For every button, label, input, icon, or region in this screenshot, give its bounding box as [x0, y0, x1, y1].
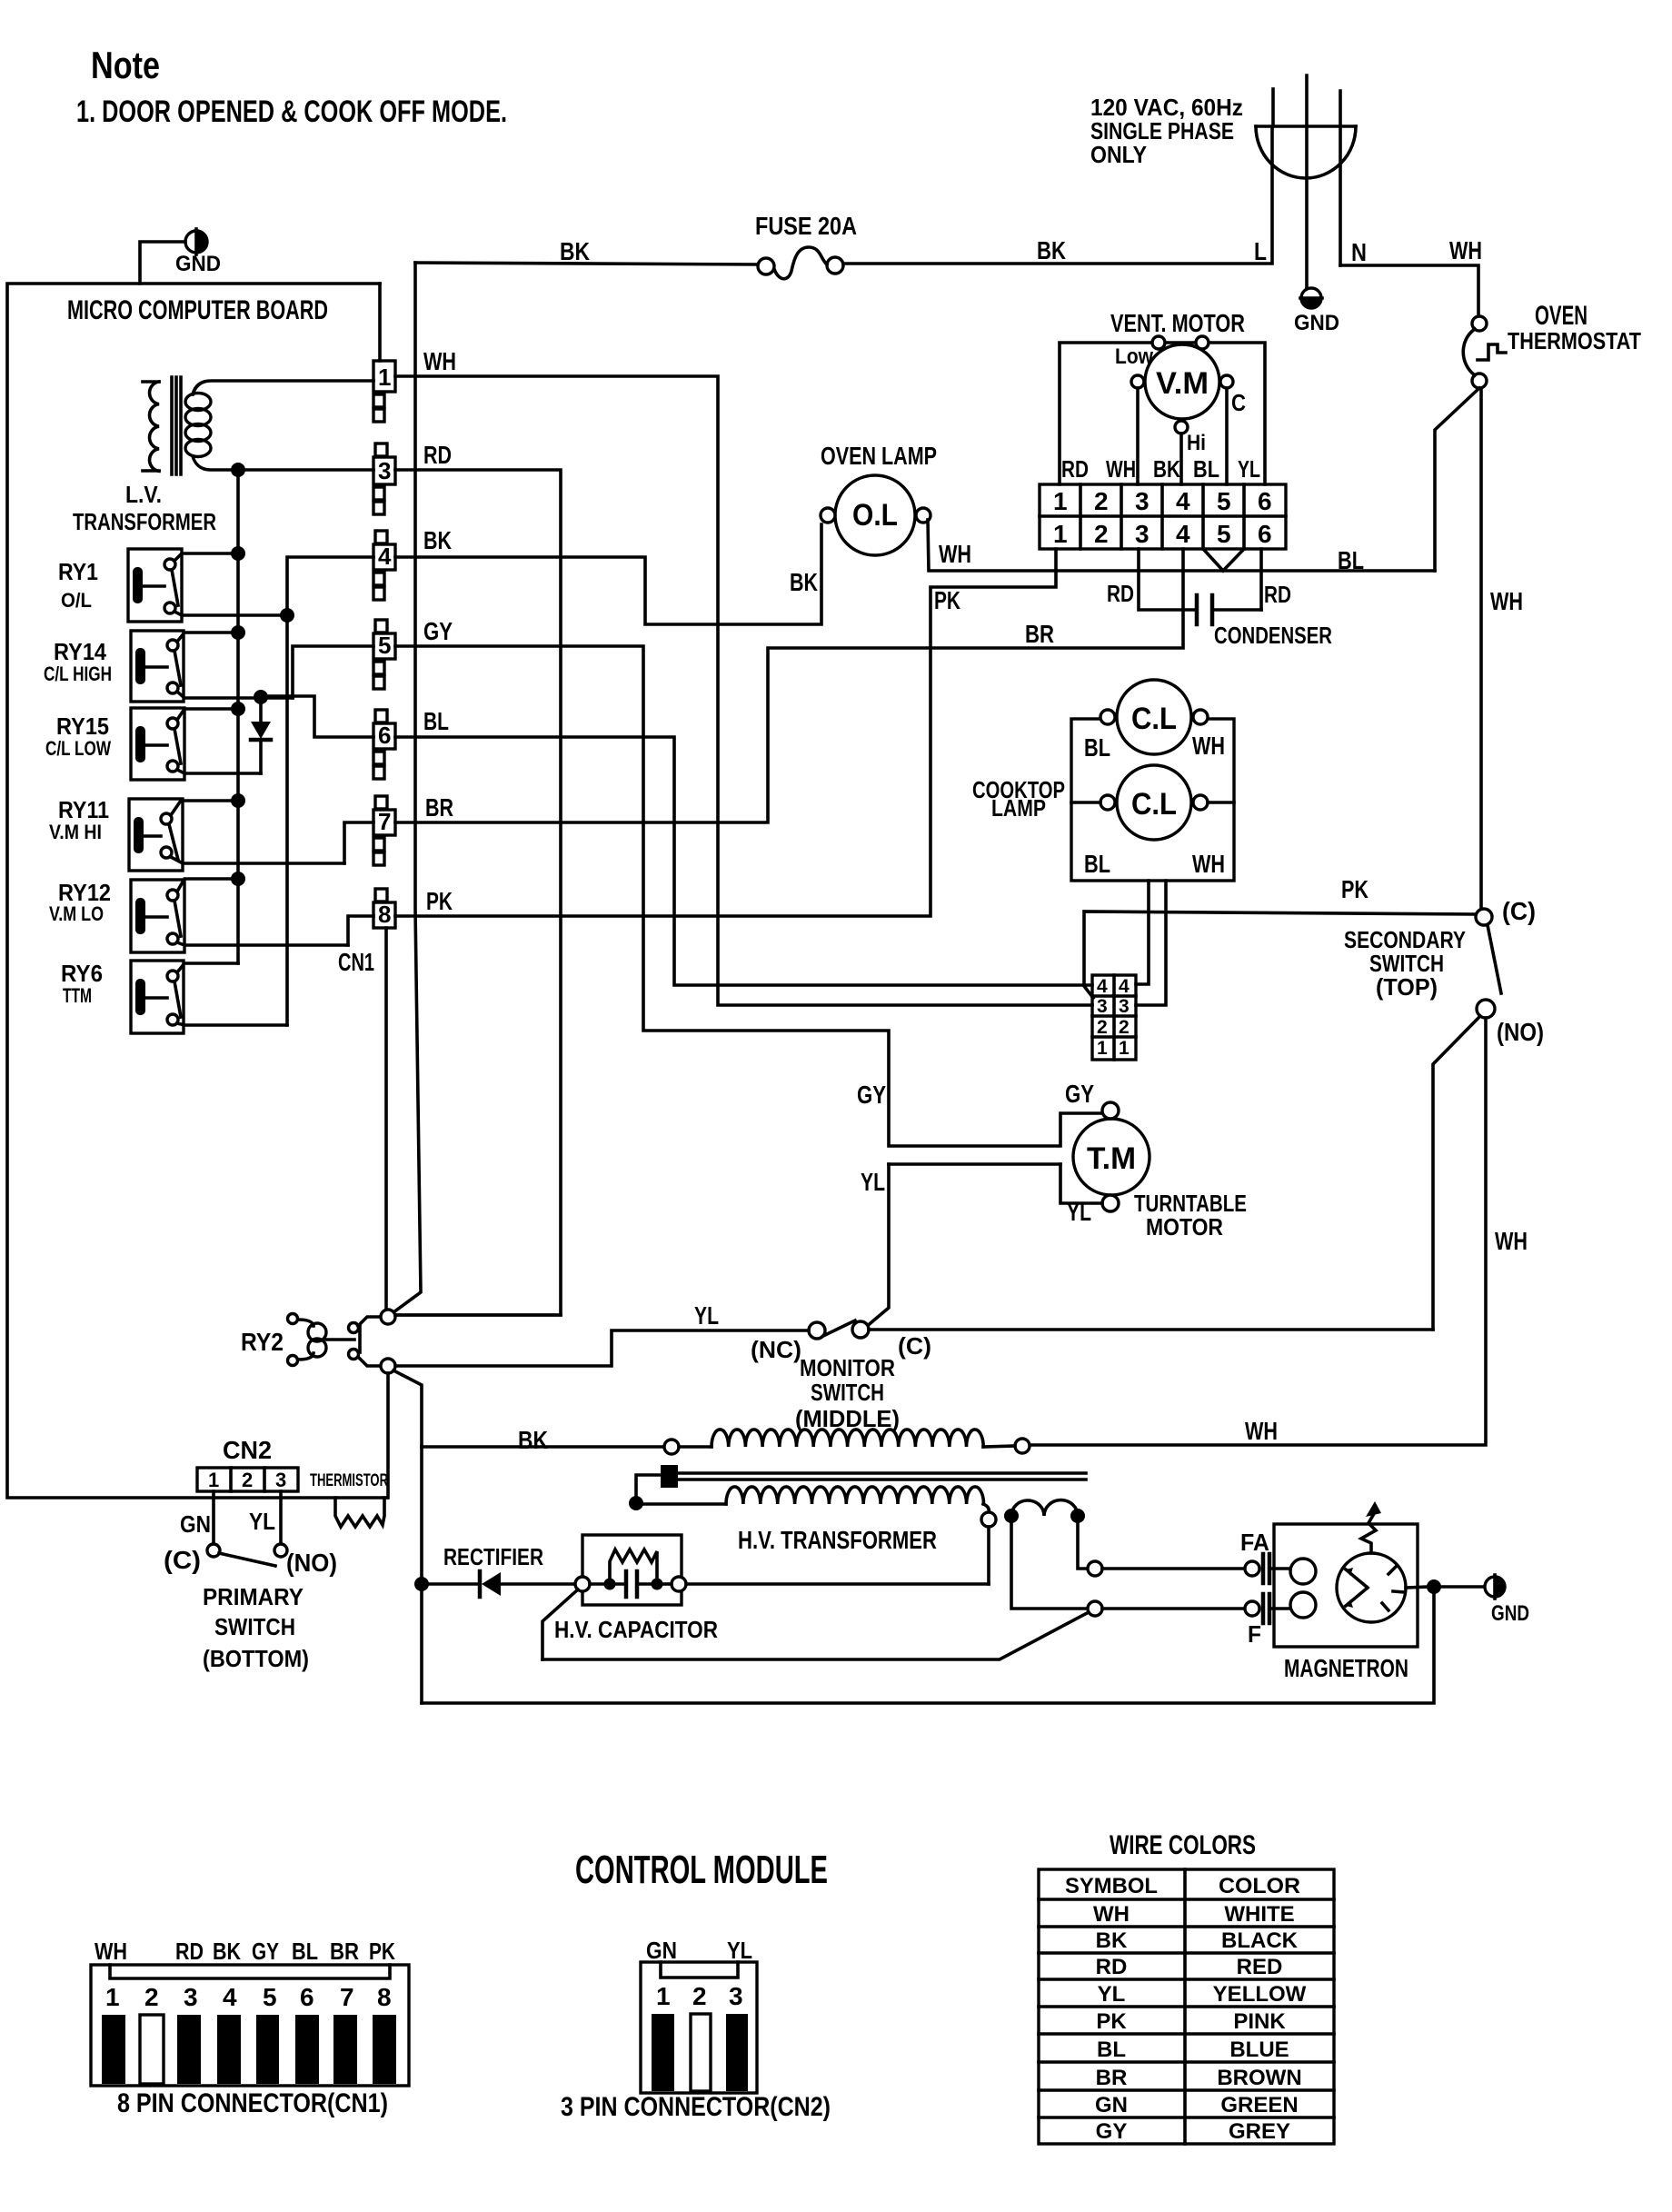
- svg-text:RY6: RY6: [61, 960, 103, 987]
- wire capacitor line to magnetron F: [542, 1612, 1089, 1659]
- wire RD net from pin 3: [393, 470, 561, 1315]
- svg-text:8: 8: [378, 901, 391, 928]
- svg-text:(BOTTOM): (BOTTOM): [203, 1645, 309, 1672]
- svg-text:RY1: RY1: [58, 558, 98, 585]
- svg-text:PK: PK: [426, 887, 453, 915]
- wire filament right to FA terminal: [1078, 1520, 1087, 1569]
- relay RY1 O/L: [128, 549, 287, 622]
- svg-text:LAMP: LAMP: [991, 794, 1046, 822]
- svg-text:2: 2: [1094, 520, 1109, 548]
- svg-text:BL: BL: [1084, 850, 1110, 878]
- CN2 pin numbers: [208, 1469, 286, 1491]
- connector CN1 strip: [373, 361, 395, 928]
- svg-text:CN1: CN1: [338, 948, 374, 976]
- svg-text:ONLY: ONLY: [1090, 141, 1147, 168]
- svg-text:THERMISTOR: THERMISTOR: [310, 1471, 388, 1490]
- svg-text:WH: WH: [1245, 1417, 1278, 1445]
- svg-text:RD: RD: [1264, 581, 1291, 608]
- wire pin8 step to RY12: [348, 916, 373, 945]
- 3 pin connector pin numbers: [656, 1982, 743, 2010]
- CN1 pin numbers: [378, 364, 392, 928]
- svg-text:GY: GY: [857, 1081, 886, 1109]
- svg-text:3: 3: [275, 1469, 286, 1491]
- svg-text:RY14: RY14: [54, 638, 106, 665]
- condenser capacitor: [1197, 595, 1261, 624]
- svg-text:YL: YL: [1067, 1198, 1091, 1226]
- svg-text:7: 7: [378, 808, 391, 835]
- wire BK net from pin 4 to oven lamp: [395, 524, 821, 624]
- diode D1: [251, 697, 271, 773]
- svg-text:(NO): (NO): [1497, 1018, 1544, 1046]
- wire pin6 step to diode: [261, 696, 373, 737]
- cooktop lamp C.L upper: [1100, 680, 1208, 754]
- svg-text:1: 1: [656, 1982, 671, 2010]
- svg-text:BK: BK: [423, 526, 452, 554]
- FA line terminal: [1088, 1561, 1102, 1576]
- svg-text:BR: BR: [1096, 2066, 1128, 2090]
- wire BR net from pin 7 to vent motor block: [395, 549, 1183, 822]
- svg-text:1: 1: [208, 1469, 219, 1491]
- svg-text:O/L: O/L: [61, 589, 92, 612]
- svg-text:BROWN: BROWN: [1217, 2066, 1301, 2090]
- svg-text:2: 2: [1094, 487, 1109, 515]
- svg-text:WH: WH: [1192, 850, 1225, 878]
- HV transformer core: [636, 1465, 1086, 1503]
- wire pin7 step to RY11: [344, 822, 373, 863]
- svg-text:6: 6: [1258, 520, 1272, 548]
- svg-text:Low: Low: [1115, 344, 1153, 369]
- junction dot transformer to bus: [231, 463, 245, 477]
- svg-text:GY: GY: [252, 1938, 279, 1965]
- svg-text:RD: RD: [1107, 580, 1134, 607]
- svg-text:RD: RD: [1096, 1955, 1128, 1979]
- svg-text:H.V. CAPACITOR: H.V. CAPACITOR: [554, 1616, 718, 1643]
- svg-text:WH: WH: [1449, 236, 1482, 264]
- wire PK net from pin 8 to vent motor block: [395, 549, 1056, 916]
- svg-text:H.V. TRANSFORMER: H.V. TRANSFORMER: [738, 1526, 937, 1554]
- wire N to oven thermostat: [1340, 265, 1478, 316]
- monitor switch C contact: [852, 1321, 869, 1338]
- svg-text:(NO): (NO): [286, 1549, 337, 1577]
- svg-text:V.M HI: V.M HI: [49, 821, 102, 843]
- wire WH oven lamp to thermostat line: [928, 520, 1435, 571]
- ground symbol GND (magnetron): [1485, 1575, 1505, 1599]
- svg-text:RD: RD: [1061, 455, 1089, 483]
- svg-text:1: 1: [378, 364, 391, 391]
- wire magnetron ground to chassis bottom: [422, 1592, 1434, 1703]
- svg-text:L.V.: L.V.: [125, 481, 162, 508]
- svg-text:WHITE: WHITE: [1224, 1902, 1294, 1927]
- junction dot HV secondary left: [629, 1496, 643, 1510]
- svg-text:RY15: RY15: [56, 712, 109, 740]
- svg-text:V.M: V.M: [1156, 366, 1209, 401]
- svg-text:1: 1: [105, 1983, 120, 2011]
- svg-text:YL: YL: [249, 1508, 275, 1535]
- svg-text:4: 4: [1176, 520, 1190, 548]
- secondary switch C contact: [1476, 909, 1492, 925]
- thermistor: [310, 1471, 388, 1527]
- svg-text:BL: BL: [423, 707, 449, 735]
- RY2 terminal bottom: [381, 1359, 395, 1373]
- wire WH from NO to HV transformer: [1030, 1018, 1486, 1445]
- 8 pin connector pin bars: [102, 2015, 396, 2084]
- svg-text:RED: RED: [1237, 1955, 1283, 1979]
- primary switch: [207, 1491, 287, 1566]
- svg-text:BL: BL: [292, 1938, 318, 1965]
- svg-text:C/L LOW: C/L LOW: [45, 737, 111, 760]
- terminal block pin numbers row 1: [1053, 487, 1272, 515]
- wire PK secondary switch line: [1084, 912, 1476, 998]
- junction dot filament right: [1070, 1509, 1085, 1523]
- wire BK mains from fuse corner down to RY2: [393, 263, 421, 1312]
- svg-text:BK: BK: [1037, 236, 1066, 264]
- svg-text:3 PIN CONNECTOR(CN2): 3 PIN CONNECTOR(CN2): [561, 2092, 831, 2122]
- svg-text:YL: YL: [1098, 1982, 1126, 2007]
- svg-text:BK: BK: [1096, 1928, 1128, 1953]
- secondary switch blade: [1488, 925, 1501, 993]
- svg-text:BLACK: BLACK: [1221, 1928, 1299, 1953]
- F line terminal: [1088, 1601, 1102, 1616]
- svg-text:WH: WH: [1192, 732, 1225, 760]
- svg-text:PINK: PINK: [1233, 2009, 1286, 2034]
- svg-text:THERMOSTAT: THERMOSTAT: [1508, 327, 1641, 354]
- svg-text:GN: GN: [646, 1937, 677, 1964]
- svg-text:BL: BL: [1338, 546, 1364, 574]
- svg-text:CONDENSER: CONDENSER: [1214, 622, 1332, 649]
- secondary interlock connector 4321: [1092, 975, 1136, 1060]
- svg-text:WH: WH: [423, 347, 456, 375]
- svg-text:7: 7: [340, 1983, 354, 2011]
- svg-text:N: N: [1351, 238, 1367, 266]
- oven thermostat: [1463, 316, 1506, 388]
- svg-text:4: 4: [1119, 976, 1130, 997]
- svg-text:(MIDDLE): (MIDDLE): [795, 1405, 900, 1432]
- L.V. transformer: [143, 377, 373, 474]
- fuse 20A: [758, 247, 843, 279]
- ground symbol GND (board): [140, 229, 207, 284]
- svg-text:T.M: T.M: [1087, 1141, 1136, 1176]
- svg-text:PK: PK: [1096, 2009, 1127, 2034]
- svg-text:VENT. MOTOR: VENT. MOTOR: [1110, 309, 1245, 337]
- svg-text:3: 3: [1119, 996, 1130, 1017]
- wire WH thermostat down to secondary switch C: [1479, 388, 1483, 908]
- svg-text:4: 4: [1176, 487, 1190, 515]
- svg-text:4: 4: [223, 1983, 237, 2011]
- rectifier branch vertical: [420, 1447, 423, 1703]
- svg-text:GN: GN: [180, 1510, 211, 1538]
- svg-text:BLUE: BLUE: [1229, 2038, 1289, 2062]
- wire to magnetron FA: [1102, 1567, 1244, 1570]
- wire pin4 step to RY1 and RY6: [287, 557, 373, 1025]
- svg-text:3: 3: [729, 1982, 743, 2010]
- wire BL net from pin 6 to interlock connector: [395, 737, 1092, 985]
- svg-text:1: 1: [1119, 1038, 1130, 1059]
- svg-text:2: 2: [1097, 1017, 1108, 1038]
- wire BK to HV transformer primary: [422, 1445, 663, 1449]
- svg-text:SWITCH: SWITCH: [811, 1379, 884, 1406]
- svg-text:CN2: CN2: [223, 1436, 272, 1464]
- vent motor V.M: [1060, 336, 1265, 484]
- 3 pin connector pin bars: [652, 2014, 748, 2091]
- svg-text:BK: BK: [560, 237, 590, 265]
- svg-text:2: 2: [242, 1469, 253, 1491]
- junction dot magnetron ground: [1427, 1579, 1441, 1594]
- turntable motor T.M: [1060, 1102, 1149, 1211]
- svg-text:GY: GY: [423, 617, 453, 645]
- svg-text:4: 4: [378, 543, 392, 570]
- wire capacitor to HV secondary: [686, 1582, 989, 1586]
- svg-text:RY2: RY2: [241, 1328, 284, 1356]
- svg-text:FUSE 20A: FUSE 20A: [755, 212, 857, 240]
- svg-text:MICRO COMPUTER BOARD: MICRO COMPUTER BOARD: [67, 295, 328, 325]
- 8 pin connector pin numbers: [105, 1983, 392, 2011]
- svg-text:PK: PK: [1341, 875, 1368, 903]
- svg-text:BK: BK: [518, 1426, 548, 1454]
- svg-text:GND: GND: [1294, 311, 1339, 335]
- svg-text:WH: WH: [1106, 455, 1136, 483]
- svg-text:8 PIN CONNECTOR(CN1): 8 PIN CONNECTOR(CN1): [117, 2088, 388, 2118]
- svg-text:1: 1: [1053, 487, 1068, 515]
- wire NO to monitor switch line: [1433, 1016, 1480, 1330]
- svg-text:GREEN: GREEN: [1220, 2093, 1298, 2117]
- svg-text:F: F: [1248, 1620, 1261, 1648]
- wire magnetron to GND: [1439, 1585, 1484, 1589]
- svg-text:6: 6: [378, 722, 391, 749]
- wire RD condenser right: [1259, 549, 1263, 610]
- HV transformer secondary winding: [636, 1487, 996, 1584]
- HV transformer filament winding: [1011, 1500, 1078, 1516]
- svg-text:BL: BL: [1097, 2038, 1126, 2062]
- relay RY14 C/L HIGH: [131, 631, 293, 702]
- wire thermostat to BL line: [1435, 388, 1479, 571]
- svg-text:MOTOR: MOTOR: [1146, 1213, 1223, 1241]
- wire pin5 step to RY14: [293, 646, 373, 698]
- wire monitor C to secondary NO: [869, 1328, 1433, 1331]
- svg-text:BK: BK: [790, 568, 818, 596]
- svg-text:O.L: O.L: [852, 498, 898, 533]
- svg-text:RY11: RY11: [58, 796, 109, 823]
- connector CN2: [197, 1468, 298, 1491]
- svg-text:FA: FA: [1240, 1529, 1269, 1556]
- 8 pin connector CN1 diagram: [91, 1965, 409, 2086]
- svg-text:(NC): (NC): [751, 1336, 801, 1363]
- wire BK fuse to plug L: [843, 127, 1272, 264]
- wire RY2 bottom to BK HV line: [393, 1370, 422, 1447]
- wire stub block cell5 to lamp line: [1203, 549, 1244, 571]
- cooktop lamp C.L lower: [1071, 765, 1234, 840]
- svg-text:YL: YL: [1238, 455, 1260, 483]
- wire CN1 stem below RY2 to board edge: [386, 1373, 390, 1498]
- svg-text:2: 2: [1119, 1017, 1130, 1038]
- svg-text:1: 1: [1053, 520, 1068, 548]
- svg-text:WIRE COLORS: WIRE COLORS: [1110, 1830, 1256, 1860]
- svg-text:RD: RD: [423, 441, 452, 469]
- oven lamp O.L: [821, 475, 931, 555]
- relay RY15 C/L LOW: [131, 708, 261, 780]
- svg-text:1. DOOR OPENED & COOK OFF MODE: 1. DOOR OPENED & COOK OFF MODE.: [76, 95, 507, 129]
- svg-text:C/L HIGH: C/L HIGH: [44, 663, 112, 685]
- svg-text:GND: GND: [1491, 1601, 1529, 1626]
- junction dot RY1 bottom on pin4 step: [280, 608, 294, 623]
- svg-text:TTM: TTM: [63, 984, 92, 1007]
- magnetron: [1245, 1501, 1428, 1647]
- svg-text:BL: BL: [1193, 455, 1219, 483]
- svg-text:GY: GY: [1065, 1080, 1094, 1108]
- wire BK mains top run to fuse: [415, 263, 758, 264]
- svg-text:4: 4: [1097, 976, 1108, 997]
- svg-text:(C): (C): [1502, 897, 1536, 925]
- svg-text:2: 2: [692, 1982, 707, 2010]
- power plug 120VAC: [1256, 75, 1356, 287]
- svg-text:SWITCH: SWITCH: [214, 1613, 295, 1640]
- svg-text:Hi: Hi: [1187, 431, 1206, 455]
- svg-text:RD: RD: [175, 1938, 204, 1965]
- svg-text:YL: YL: [861, 1168, 885, 1196]
- wire RD condenser left: [1139, 549, 1195, 610]
- svg-text:BK: BK: [213, 1938, 241, 1965]
- wire WH net from pin 1: [395, 376, 1092, 1005]
- wire YL turntable to monitor switch C: [889, 1162, 1060, 1166]
- svg-text:CONTROL MODULE: CONTROL MODULE: [575, 1848, 828, 1892]
- rectifier diode: [422, 1571, 575, 1597]
- relay RY12 V.M LO: [131, 879, 348, 952]
- 3 pin connector CN2 diagram: [641, 1962, 757, 2093]
- svg-text:YELLOW: YELLOW: [1213, 1982, 1307, 2007]
- svg-text:V.M LO: V.M LO: [49, 902, 104, 925]
- svg-text:C.L: C.L: [1131, 787, 1177, 822]
- svg-text:3: 3: [184, 1983, 198, 2011]
- wire RY2 top to RD vertical: [395, 1313, 561, 1317]
- svg-text:GN: GN: [1095, 2093, 1128, 2117]
- svg-text:6: 6: [1258, 487, 1272, 515]
- svg-text:Note: Note: [91, 44, 160, 86]
- terminal block wire labels: [1061, 455, 1260, 483]
- svg-text:COLOR: COLOR: [1219, 1874, 1300, 1898]
- svg-text:C.L: C.L: [1131, 702, 1177, 736]
- svg-text:YL: YL: [727, 1937, 752, 1964]
- svg-text:WH: WH: [939, 540, 971, 568]
- ground symbol GND (plug): [1300, 288, 1322, 308]
- HV capacitor assembly: [575, 1535, 686, 1605]
- svg-text:5: 5: [263, 1983, 277, 2011]
- wire colors table: [1039, 1869, 1334, 2144]
- svg-text:WH: WH: [1490, 587, 1523, 615]
- svg-text:BR: BR: [1025, 620, 1054, 648]
- monitor switch blade: [823, 1320, 855, 1336]
- wire to magnetron F: [1102, 1607, 1244, 1610]
- CN1 stem wire down to RY2: [384, 928, 388, 1310]
- wire filament left to F terminal: [1011, 1520, 1087, 1609]
- svg-text:BL: BL: [1084, 733, 1110, 762]
- svg-text:TRANSFORMER: TRANSFORMER: [73, 508, 216, 535]
- svg-text:5: 5: [1217, 487, 1231, 515]
- wire cooktop to interlock connector right stub: [1136, 881, 1166, 1005]
- junction dots on relay bus: [231, 546, 245, 561]
- svg-text:PK: PK: [369, 1938, 395, 1965]
- svg-text:OVEN LAMP: OVEN LAMP: [821, 442, 937, 470]
- svg-text:GREY: GREY: [1229, 2119, 1290, 2144]
- junction dot filament left: [1004, 1509, 1019, 1523]
- svg-text:MAGNETRON: MAGNETRON: [1284, 1654, 1408, 1682]
- wire GY net from pin 5 to turntable motor: [395, 646, 1102, 1146]
- 8 pin connector wire labels: [95, 1938, 395, 1965]
- svg-text:1: 1: [1097, 1038, 1108, 1059]
- svg-text:(C): (C): [898, 1332, 931, 1360]
- cooktop lamp box: [1071, 719, 1234, 881]
- svg-text:GY: GY: [1096, 2119, 1128, 2144]
- svg-text:(TOP): (TOP): [1376, 973, 1438, 1001]
- svg-text:SYMBOL: SYMBOL: [1065, 1874, 1158, 1898]
- svg-text:WH: WH: [1495, 1227, 1528, 1255]
- svg-text:L: L: [1254, 237, 1267, 265]
- wire colors table text: [1065, 1874, 1307, 2144]
- svg-text:WH: WH: [1093, 1902, 1130, 1927]
- wire RY2 bottom YL to monitor NC: [395, 1330, 809, 1366]
- svg-text:5: 5: [378, 632, 391, 659]
- wire cooktop to interlock connector left stub: [1136, 881, 1149, 984]
- vent motor terminal block: [1040, 484, 1286, 549]
- svg-text:3: 3: [1135, 487, 1149, 515]
- svg-text:8: 8: [377, 1983, 392, 2011]
- 120 VAC text: [1090, 94, 1243, 168]
- svg-text:3: 3: [1135, 520, 1149, 548]
- svg-text:(C): (C): [164, 1546, 201, 1574]
- RY2 terminal top: [381, 1310, 395, 1324]
- HV CAPACITOR leader and label: [542, 1589, 578, 1659]
- svg-text:2: 2: [144, 1983, 159, 2011]
- micro computer board outline: [7, 284, 387, 1498]
- svg-text:6: 6: [300, 1983, 314, 2011]
- svg-text:MONITOR: MONITOR: [800, 1354, 895, 1381]
- relay RY11 V.M HI: [129, 799, 344, 871]
- monitor switch NC contact: [809, 1322, 825, 1339]
- junction dot rectifier: [414, 1577, 429, 1591]
- junction dot diode top: [254, 690, 268, 704]
- HV transformer primary winding: [664, 1430, 1030, 1454]
- interlock connector pin numbers: [1097, 976, 1130, 1059]
- terminal block pin numbers row 2: [1053, 520, 1272, 548]
- relay supply bus vertical: [236, 472, 240, 963]
- svg-text:3: 3: [378, 457, 391, 484]
- svg-text:GND: GND: [175, 252, 221, 276]
- svg-text:BK: BK: [1153, 455, 1180, 483]
- svg-text:BR: BR: [425, 793, 453, 822]
- svg-text:RECTIFIER: RECTIFIER: [443, 1543, 543, 1570]
- svg-text:C: C: [1231, 389, 1246, 416]
- svg-text:YL: YL: [694, 1301, 719, 1330]
- svg-text:5: 5: [1217, 520, 1231, 548]
- relay RY2: [288, 1314, 382, 1367]
- relay RY6 TTM: [131, 961, 287, 1033]
- secondary switch NO contact: [1477, 1000, 1495, 1018]
- svg-text:PK: PK: [934, 586, 960, 614]
- svg-text:3: 3: [1097, 996, 1108, 1017]
- svg-text:BR: BR: [330, 1938, 359, 1965]
- svg-text:PRIMARY: PRIMARY: [203, 1583, 304, 1610]
- svg-text:WH: WH: [95, 1938, 127, 1965]
